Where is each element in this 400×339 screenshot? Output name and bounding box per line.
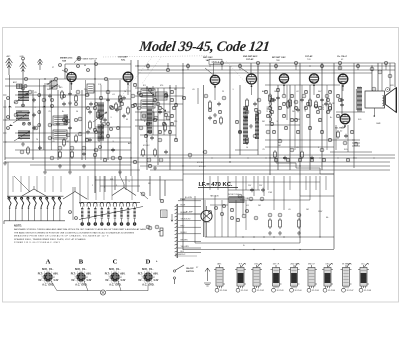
svg-text:A.C.: A.C. xyxy=(75,284,80,287)
svg-text:D: D xyxy=(146,258,151,265)
infill ref L6 xyxy=(110,106,113,109)
circled ref 43 xyxy=(188,153,192,157)
drop wire xyxy=(267,176,269,190)
wire xyxy=(341,85,343,114)
IF/coil part drawing OSC xyxy=(322,263,335,292)
ref xyxy=(388,74,392,78)
IF transformer T4b xyxy=(141,112,154,120)
infill ref R5 xyxy=(328,90,331,93)
top ref 3 xyxy=(87,69,90,72)
wire to switch B xyxy=(79,176,81,204)
circled ref 51 xyxy=(282,94,286,98)
tube V8 (output) xyxy=(340,114,350,127)
capacitor C25 xyxy=(250,188,254,192)
resistor infill xyxy=(97,110,100,119)
svg-text:32-2542: 32-2542 xyxy=(257,290,264,292)
resistor R7 xyxy=(142,148,145,157)
circled ref 18 xyxy=(58,146,62,150)
resistor R15 xyxy=(309,98,312,108)
right ref 11 xyxy=(326,98,329,101)
terminal wire GR-BLK-RD xyxy=(178,220,201,222)
wave switch icon spokes xyxy=(77,56,82,61)
svg-text:3: 3 xyxy=(116,185,117,187)
svg-text:4: 4 xyxy=(109,277,110,279)
capacitor C20 xyxy=(296,108,300,112)
circled ref 29 xyxy=(137,106,141,110)
svg-text:57: 57 xyxy=(52,67,54,69)
terminal wire P.AMP xyxy=(178,200,201,202)
IF trimmer box xyxy=(156,92,167,100)
circled ref 3 xyxy=(7,116,10,119)
ref xyxy=(28,90,32,94)
switch ref xyxy=(69,211,72,214)
circled ref 72 xyxy=(297,213,301,217)
circled ref 10 xyxy=(38,124,41,127)
wire xyxy=(371,66,373,91)
wire xyxy=(214,85,216,100)
ref xyxy=(222,204,225,207)
wire x183 tall xyxy=(182,63,184,250)
svg-text:OCT-DET: OCT-DET xyxy=(118,57,128,59)
svg-text:SPEAKER FIELD, TRANSFORMER FIE: SPEAKER FIELD, TRANSFORMER FIELD PLATE, … xyxy=(14,238,86,241)
left ref 1 xyxy=(62,94,65,97)
infill ref L2 xyxy=(93,106,96,109)
svg-text:7: 7 xyxy=(51,273,52,275)
svg-text:3M: 3M xyxy=(262,121,265,123)
circled ref 59 xyxy=(266,130,270,134)
wire x95 tall xyxy=(94,60,96,193)
resistor R30 xyxy=(75,94,78,103)
tube socket diagram B xyxy=(71,258,92,286)
strip ref xyxy=(160,199,163,202)
wire x295 xyxy=(294,85,296,150)
wire y199 xyxy=(180,198,229,200)
coupling box 2 xyxy=(87,84,94,93)
resistor infill xyxy=(115,102,118,111)
wire xyxy=(5,141,131,143)
drop wire xyxy=(209,176,211,190)
circled ref 31 xyxy=(164,94,168,98)
svg-text:FIL.: FIL. xyxy=(149,268,154,271)
switch contact arrow c xyxy=(9,124,13,126)
circled ref 24 xyxy=(106,90,110,94)
ref xyxy=(14,113,18,117)
terminal wire BLUE xyxy=(178,206,201,208)
bus junction ref 1 xyxy=(166,68,169,71)
svg-text:GR-BLK-RD: GR-BLK-RD xyxy=(181,219,192,221)
oscillator coil winding lower xyxy=(98,125,105,140)
circled ref 34 xyxy=(139,126,143,130)
infill ref L10 xyxy=(139,93,142,96)
circled ref 54 xyxy=(314,104,318,108)
svg-text:8: 8 xyxy=(120,277,121,279)
wire xyxy=(94,176,96,193)
right ref 6 xyxy=(294,118,297,121)
resistor xyxy=(75,134,78,143)
wire xyxy=(4,100,6,160)
svg-text:.5: .5 xyxy=(20,139,22,141)
top ref 1 xyxy=(65,69,68,72)
circled ref 32 xyxy=(142,114,146,118)
infill ref L18 xyxy=(182,96,185,99)
cluster ref 2 xyxy=(172,106,175,109)
drop to switch B xyxy=(95,176,97,200)
bus junction y158 xyxy=(265,157,266,158)
ground R20 xyxy=(278,231,282,235)
infill ref L8 xyxy=(133,83,136,86)
infill ref R9 xyxy=(290,118,293,121)
wire x215 xyxy=(214,196,216,237)
resistor R20 xyxy=(279,218,282,229)
right ref 10 xyxy=(318,118,321,121)
wire xyxy=(157,88,159,165)
svg-text:.01: .01 xyxy=(112,94,115,96)
switch rotor arm C xyxy=(112,184,136,196)
svg-text:70: 70 xyxy=(36,139,38,141)
svg-text:PLT.: PLT. xyxy=(138,273,143,276)
junction xyxy=(130,157,131,158)
circled ref 53 xyxy=(302,94,306,98)
svg-text:.1: .1 xyxy=(232,89,234,91)
tube V1 (7A8) xyxy=(67,72,76,84)
infill ref L13 xyxy=(153,118,156,121)
junction xyxy=(353,157,354,158)
junction xyxy=(23,123,24,124)
svg-text:20: 20 xyxy=(98,141,100,143)
circled ref 71 xyxy=(278,213,282,217)
IF/coil part drawing OSC. xyxy=(251,263,264,292)
wire xyxy=(273,176,275,210)
oscillator tube V9 xyxy=(201,206,212,222)
small coil winding x65 xyxy=(64,115,69,124)
ground xyxy=(58,164,62,168)
oscillator coil winding upper xyxy=(98,103,105,118)
circled ref 52 xyxy=(294,100,298,104)
svg-text:.05: .05 xyxy=(316,107,319,109)
capacitor infill R xyxy=(324,102,328,106)
circled ref 22 xyxy=(94,148,98,152)
bus junction y158 xyxy=(337,157,338,158)
svg-text:BROWN: BROWN xyxy=(181,239,189,241)
infill ref L11 xyxy=(148,88,151,91)
wire xyxy=(57,90,59,160)
wire xyxy=(269,63,271,175)
capacitor C9 xyxy=(111,148,115,152)
leader to wave switch icon xyxy=(74,58,79,64)
circled ref 8 xyxy=(38,94,41,97)
svg-text:2: 2 xyxy=(47,282,48,284)
capacitor xyxy=(56,122,60,126)
svg-text:90V.: 90V. xyxy=(154,273,159,276)
tuning arrow T1 xyxy=(14,94,28,104)
svg-text:A.C.: A.C. xyxy=(142,284,147,287)
drop to switch xyxy=(28,176,30,192)
ground V4 xyxy=(249,124,253,128)
capacitor C11 xyxy=(158,110,162,114)
dial lamp symbol xyxy=(100,290,105,295)
capacitor C17 xyxy=(253,102,257,106)
svg-text:90V.: 90V. xyxy=(87,273,92,276)
bus junction xyxy=(167,65,168,66)
wire xyxy=(146,86,148,170)
svg-text:PLT.: PLT. xyxy=(38,273,43,276)
ref xyxy=(238,130,241,133)
infill ref L16 xyxy=(164,113,167,116)
svg-text:.3: .3 xyxy=(112,141,114,143)
tube V7 (output) xyxy=(338,74,348,87)
wire xyxy=(289,85,291,170)
capacitor infill R xyxy=(300,98,304,102)
svg-text:1.4V: 1.4V xyxy=(86,279,91,282)
cluster ref 11 xyxy=(144,134,147,137)
capacitor xyxy=(86,130,90,134)
svg-text:SW: SW xyxy=(47,89,50,91)
coupling box xyxy=(50,81,57,89)
wire x176 xyxy=(175,85,177,140)
drop to switch B xyxy=(87,176,89,200)
circled ref 47 xyxy=(257,110,261,114)
infill ref R8 xyxy=(278,106,281,109)
svg-text:R. 14076-2: R. 14076-2 xyxy=(175,254,186,256)
capacitor C24 xyxy=(340,103,344,107)
bus junction ref 6 xyxy=(274,64,277,67)
dotted leader line xyxy=(226,61,247,84)
circled ref 25 xyxy=(118,106,122,110)
infill ref R7 xyxy=(266,114,269,117)
resistor R17 xyxy=(274,150,277,159)
junction xyxy=(44,78,45,79)
tube V4 xyxy=(247,74,257,87)
wire xyxy=(265,139,355,141)
capacitor xyxy=(68,126,72,130)
antenna A3 xyxy=(37,59,42,70)
arrow trimmer 2 xyxy=(161,107,166,112)
capacitor C14 xyxy=(217,102,221,106)
ref xyxy=(378,70,382,74)
infill ref L4 xyxy=(99,96,102,99)
bus stub xyxy=(295,63,297,70)
IF transformer winding A xyxy=(243,107,248,143)
svg-text:6: 6 xyxy=(81,271,82,273)
svg-text:.1: .1 xyxy=(268,103,270,105)
right ref 4 xyxy=(282,114,285,117)
right ref 7 xyxy=(306,102,309,105)
circled ref 1 xyxy=(24,85,27,88)
svg-text:1ST AF: 1ST AF xyxy=(246,58,254,61)
wire xyxy=(257,66,259,155)
junction y237 xyxy=(242,236,243,237)
svg-text:90V.: 90V. xyxy=(54,273,59,276)
resistor R4 xyxy=(71,150,74,159)
svg-text:.05: .05 xyxy=(296,147,299,149)
wire y205 xyxy=(210,204,228,206)
wire xyxy=(250,63,252,74)
staircase wire xyxy=(270,158,334,174)
circled ref 73 xyxy=(141,192,145,196)
svg-text:.05: .05 xyxy=(192,89,195,91)
svg-text:1ST AF: 1ST AF xyxy=(305,55,313,58)
bus junction ref 2 xyxy=(186,64,189,67)
IF1 winding bar xyxy=(147,108,152,133)
ref xyxy=(350,130,353,133)
infill ref R19 xyxy=(328,138,331,141)
wire x382 xyxy=(381,63,383,91)
left ref 10 xyxy=(94,130,97,133)
dotted leader line xyxy=(142,57,161,84)
padder trimmer box (dark) xyxy=(229,197,244,203)
infill ref R14 xyxy=(272,130,275,133)
switch ref xyxy=(75,217,78,220)
circled ref 36 xyxy=(158,138,162,142)
padder box 2 xyxy=(53,130,67,139)
drop to switch xyxy=(52,176,54,192)
svg-text:.05: .05 xyxy=(288,209,291,211)
svg-text:.25: .25 xyxy=(48,111,51,113)
wire y99 xyxy=(85,98,131,100)
drop wire xyxy=(305,176,307,190)
switch wafer S1a xyxy=(44,80,54,85)
bus junction ref 0 xyxy=(146,64,149,67)
bus junction xyxy=(371,65,372,66)
bottom wire y243 xyxy=(195,242,300,244)
circled ref 20 xyxy=(82,146,86,150)
infill ref R18 xyxy=(320,130,323,133)
wire y91 xyxy=(85,90,131,92)
circled ref 66 xyxy=(249,197,253,201)
svg-text:.05: .05 xyxy=(52,141,55,143)
junction xyxy=(374,115,376,117)
wire xyxy=(4,119,6,121)
infill ref R6 xyxy=(336,94,339,97)
bus junction y158 xyxy=(229,157,230,158)
wire xyxy=(100,185,140,187)
wire xyxy=(104,176,106,192)
bus junction xyxy=(295,65,296,66)
svg-text:32-2540: 32-2540 xyxy=(220,290,227,292)
ref xyxy=(34,126,38,130)
volume control R22 xyxy=(158,228,163,236)
bus stub xyxy=(221,63,223,70)
capacitor C10 xyxy=(122,96,126,100)
wire xyxy=(283,176,285,210)
resistor R12 xyxy=(246,136,249,145)
infill ref R17 xyxy=(308,126,311,129)
circled ref 15 xyxy=(66,133,70,137)
svg-text:.01: .01 xyxy=(246,205,249,207)
cluster ref 0 xyxy=(170,90,173,93)
circled ref 70 xyxy=(268,213,272,217)
ref xyxy=(42,98,46,102)
strip resistor xyxy=(161,210,168,218)
infill ref L19 xyxy=(93,153,96,156)
voice coil loops xyxy=(383,96,384,106)
svg-text:FLD: FLD xyxy=(344,149,348,151)
ground V1 xyxy=(68,101,72,105)
IF/coil part drawing W.TRAP xyxy=(341,263,354,293)
bus junction xyxy=(309,65,310,66)
svg-text:INT-SET OSC: INT-SET OSC xyxy=(272,57,286,59)
wire xyxy=(169,85,171,170)
svg-text:1M: 1M xyxy=(306,209,309,211)
svg-text:5: 5 xyxy=(146,141,147,143)
svg-text:A.C.: A.C. xyxy=(42,284,47,287)
svg-text:1 MEG: 1 MEG xyxy=(291,100,293,106)
wire xyxy=(251,84,253,95)
wire y200 xyxy=(240,199,310,201)
svg-text:6: 6 xyxy=(48,271,49,273)
svg-text:FIL.: FIL. xyxy=(49,268,54,271)
tube V2 (XXL) xyxy=(123,72,133,85)
svg-text:XXL: XXL xyxy=(121,59,126,61)
right ref 1 xyxy=(270,110,273,113)
top bus wire y63 xyxy=(214,62,396,64)
capacitor C23 xyxy=(310,156,314,160)
svg-text:2ND DET-AVC: 2ND DET-AVC xyxy=(243,55,258,58)
capacitor under V3 xyxy=(208,116,212,120)
svg-text:50: 50 xyxy=(76,111,78,113)
junction xyxy=(229,161,230,162)
wire xyxy=(44,85,46,170)
junction xyxy=(169,87,170,88)
junction y237 xyxy=(299,236,300,237)
circled ref 67 xyxy=(260,197,264,201)
svg-text:B: B xyxy=(79,258,84,265)
right ref 17 xyxy=(310,158,313,161)
wire x354 tall xyxy=(353,63,355,168)
wire xyxy=(137,176,139,192)
resistor R8 xyxy=(154,148,157,157)
svg-text:6V.: 6V. xyxy=(138,279,142,282)
svg-text:8: 8 xyxy=(153,277,154,279)
wire diag to V4 xyxy=(241,68,249,74)
bus junction y158 xyxy=(149,157,150,158)
wire below speaker box xyxy=(373,108,375,116)
bus junction ref 11 xyxy=(384,61,387,64)
capacitor infill xyxy=(122,114,126,118)
infill ref R16 xyxy=(296,130,299,133)
bus junction ref 4 xyxy=(238,64,241,67)
cluster ref 9 xyxy=(168,130,171,133)
IF transformer T4 secondary xyxy=(141,100,155,108)
wire xyxy=(309,176,311,200)
svg-text:.05: .05 xyxy=(244,121,247,123)
wire xyxy=(135,95,183,97)
svg-text:25: 25 xyxy=(222,91,224,93)
resistor infill R xyxy=(287,100,290,109)
wire xyxy=(263,176,265,196)
circled ref 48 xyxy=(245,110,249,114)
svg-text:FIL.: FIL. xyxy=(116,268,121,271)
bus stub xyxy=(257,63,259,70)
top ref 0 xyxy=(59,64,62,67)
svg-text:TAN TAUS: TAN TAUS xyxy=(210,195,219,198)
resistor R19 xyxy=(269,218,272,229)
junction xyxy=(182,69,183,70)
padder box xyxy=(53,116,67,125)
resistor R3 xyxy=(59,150,62,159)
wire V1 cathode xyxy=(71,82,73,90)
circled ref 68 xyxy=(242,214,246,218)
svg-text:250: 250 xyxy=(174,121,177,123)
circled ref 23 xyxy=(102,122,106,126)
tuning arrow T3 xyxy=(14,131,30,141)
wire xyxy=(69,82,71,170)
left ref 5 xyxy=(74,118,77,121)
wire xyxy=(30,164,131,166)
capacitor C22 xyxy=(283,156,287,160)
drop wire xyxy=(315,176,317,190)
ground V3 xyxy=(213,113,217,117)
